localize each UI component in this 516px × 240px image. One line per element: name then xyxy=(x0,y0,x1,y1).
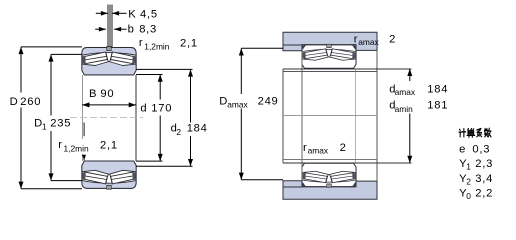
svg-text:184: 184 xyxy=(427,83,448,95)
shaft surface top xyxy=(283,71,377,73)
svg-text:B: B xyxy=(89,88,96,100)
svg-text:2,2: 2,2 xyxy=(475,188,493,200)
svg-text:K: K xyxy=(128,8,136,20)
housing shoulder face xyxy=(301,51,303,181)
shaft shoulder seat line bottom xyxy=(283,186,302,188)
seat corner chamfer marks right figure xyxy=(303,45,306,50)
lubrication hole lines K/b xyxy=(107,5,109,48)
bearing upper section right xyxy=(302,44,356,68)
svg-text:2: 2 xyxy=(389,34,396,46)
bearing right face extension xyxy=(355,69,357,163)
d dimension line xyxy=(136,74,163,76)
bearing side faces in bore gap xyxy=(81,75,83,139)
svg-text:2,3: 2,3 xyxy=(475,158,493,170)
d_amax / d_amin dimension xyxy=(409,69,411,81)
svg-text:170: 170 xyxy=(151,103,172,115)
b dimension arrows xyxy=(95,28,106,30)
系 xyxy=(477,128,482,136)
svg-text:90: 90 xyxy=(100,88,114,100)
svg-text:249: 249 xyxy=(258,96,279,108)
D dimension line xyxy=(21,46,82,48)
svg-text:235: 235 xyxy=(50,118,71,130)
svg-text:181: 181 xyxy=(427,100,448,112)
d2 dimension line xyxy=(136,68,193,70)
svg-text:4,5: 4,5 xyxy=(140,8,158,20)
bearing upper section xyxy=(82,47,136,75)
svg-text:amax: amax xyxy=(358,37,379,47)
svg-text:D: D xyxy=(34,118,42,130)
svg-text:3,4: 3,4 xyxy=(475,173,493,185)
section cut edge xyxy=(376,50,378,181)
shaft bore line bottom xyxy=(283,162,411,164)
svg-text:1,2min: 1,2min xyxy=(64,143,89,153)
housing block top xyxy=(283,32,377,51)
K dimension arrows xyxy=(96,12,108,14)
bearing lower section xyxy=(82,161,136,189)
axis center line xyxy=(70,116,143,118)
svg-text:D: D xyxy=(219,96,227,108)
svg-text:d: d xyxy=(140,103,146,115)
svg-text:260: 260 xyxy=(20,96,41,108)
svg-text:amax: amax xyxy=(395,87,416,97)
D_amax dimension xyxy=(241,47,283,49)
数 xyxy=(484,128,491,137)
svg-text:r: r xyxy=(58,139,62,151)
svg-text:amin: amin xyxy=(395,104,413,114)
svg-text:r: r xyxy=(303,142,307,154)
svg-text:2,1: 2,1 xyxy=(180,38,198,50)
shaft bore line top xyxy=(283,68,411,70)
svg-text:0,3: 0,3 xyxy=(472,143,490,155)
svg-text:b: b xyxy=(128,24,134,36)
svg-text:1: 1 xyxy=(42,121,47,131)
svg-text:2,1: 2,1 xyxy=(100,139,118,151)
svg-text:r: r xyxy=(139,37,143,49)
B dimension arrows xyxy=(82,104,136,106)
bearing lower section right xyxy=(302,163,356,187)
shaft surface bottom xyxy=(283,159,377,161)
svg-text:1,2min: 1,2min xyxy=(144,42,169,52)
svg-text:2: 2 xyxy=(466,177,471,187)
svg-text:e: e xyxy=(459,143,465,155)
housing left face xyxy=(282,69,284,163)
计 xyxy=(459,129,466,137)
计算系数 heading (drawn strokes) xyxy=(459,128,491,137)
算 xyxy=(467,129,475,138)
shaft block bottom xyxy=(283,181,377,200)
r 1,2min 2,1 label left with leader xyxy=(83,123,85,137)
svg-text:2: 2 xyxy=(176,127,181,137)
D1 dimension line xyxy=(51,53,82,55)
svg-text:8,3: 8,3 xyxy=(139,24,157,36)
svg-text:2: 2 xyxy=(340,142,347,154)
svg-text:1: 1 xyxy=(466,162,471,172)
axis center line right xyxy=(283,114,377,116)
svg-text:amax: amax xyxy=(227,99,248,109)
svg-text:r: r xyxy=(354,33,358,45)
housing shoulder seat line top xyxy=(283,44,302,46)
svg-text:184: 184 xyxy=(187,123,208,135)
svg-text:0: 0 xyxy=(466,191,471,201)
svg-text:D: D xyxy=(10,96,18,108)
svg-text:amax: amax xyxy=(308,146,329,156)
